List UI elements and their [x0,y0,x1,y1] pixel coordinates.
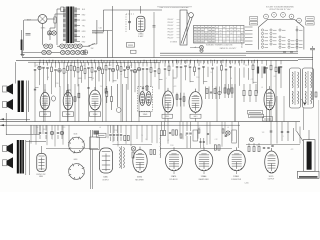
svg-text:GRN: GRN [82,20,87,22]
svg-text:CONVERTER: CONVERTER [231,179,242,181]
svg-text:C1A: C1A [98,27,102,30]
svg-text:YEL: YEL [82,25,85,27]
svg-text:PULLEY: PULLEY [168,25,174,27]
svg-text:68K: 68K [130,65,133,67]
svg-text:47K: 47K [291,149,294,151]
svg-text:6AV6: 6AV6 [74,158,78,161]
svg-text:RECTIFIER: RECTIFIER [135,179,144,181]
svg-text:220K: 220K [55,83,59,85]
svg-text:WITH VTVM LINE 117 V AC: WITH VTVM LINE 117 V AC [269,8,291,11]
svg-text:BLK: BLK [82,36,86,38]
svg-text:RED: RED [82,14,86,16]
svg-text:OUTPUT: OUTPUT [268,178,275,180]
svg-text:PULLEY: PULLEY [168,28,174,30]
svg-text:12K: 12K [36,127,39,129]
svg-text:68K: 68K [252,138,255,140]
svg-text:PULLEY: PULLEY [168,34,174,36]
svg-text:PULLEY: PULLEY [168,37,174,39]
svg-text:12K: 12K [262,132,265,134]
svg-text:BLK: BLK [82,9,86,11]
svg-text:OUTPUT: OUTPUT [102,179,109,181]
svg-text:10: 10 [65,72,67,74]
svg-text:12K: 12K [149,69,152,71]
svg-text:.02: .02 [221,65,223,67]
svg-text:150: 150 [198,127,201,129]
svg-text:.1: .1 [282,136,283,138]
svg-text:PULLEY: PULLEY [168,31,174,33]
svg-text:GRN: GRN [82,31,87,33]
svg-text:PULLEY: PULLEY [168,22,174,24]
svg-text:12BA6: 12BA6 [138,33,143,36]
svg-text:10: 10 [210,72,212,74]
svg-text:L2: L2 [95,33,97,35]
svg-text:12BE6: 12BE6 [233,176,239,178]
svg-text:4.7K: 4.7K [108,65,111,67]
svg-text:.01: .01 [261,87,263,89]
svg-text:50B5: 50B5 [103,177,107,179]
svg-text:IF AMPLIFIER: IF AMPLIFIER [198,178,209,181]
svg-text:50C5: 50C5 [269,176,274,178]
svg-text:.01: .01 [227,127,229,129]
svg-text:10: 10 [145,139,147,141]
svg-text:RATED 35 L 4% KWTY: RATED 35 L 4% KWTY [220,47,237,50]
svg-text:C-605: C-605 [244,183,248,185]
svg-text:150: 150 [245,65,248,67]
svg-text:1M: 1M [185,135,188,137]
svg-text:_: _ [190,46,192,47]
svg-text:47K: 47K [174,86,177,88]
svg-text:.02: .02 [83,65,85,67]
svg-text:1ST AUDIO: 1ST AUDIO [169,178,178,181]
svg-text:.05: .05 [47,77,49,79]
svg-text:TUBE AND TRIMMER LOCATIONS: TUBE AND TRIMMER LOCATIONS [206,43,234,46]
svg-text:4.7K: 4.7K [214,139,217,141]
svg-text:6BJ6: 6BJ6 [74,134,78,136]
svg-text:220K: 220K [170,145,174,147]
svg-text:6BE6: 6BE6 [39,176,43,178]
svg-text:2.0: 2.0 [43,129,45,131]
svg-text:12BA6: 12BA6 [201,175,207,178]
svg-text:PULLEY: PULLEY [168,19,174,21]
svg-text:35W4: 35W4 [137,177,142,179]
svg-text:MODEL 5T10 CH: MODEL 5T10 CH [242,33,244,48]
svg-text:1M: 1M [230,78,233,80]
svg-text:150: 150 [100,86,103,88]
svg-text:12AV6: 12AV6 [143,113,148,116]
svg-text:47K: 47K [36,65,39,67]
svg-text:.05: .05 [99,127,101,129]
svg-text:PHONO OSC: PHONO OSC [36,174,46,176]
svg-text:6BE6: 6BE6 [165,116,169,118]
svg-text:SW: SW [91,48,94,50]
svg-text:.1: .1 [51,139,52,141]
svg-text:220K: 220K [114,130,118,132]
svg-text:10: 10 [141,135,143,137]
svg-text:6AL5: 6AL5 [194,115,198,118]
svg-text:.05: .05 [188,65,190,67]
svg-text:4.7K: 4.7K [250,79,253,81]
svg-text:12AT6: 12AT6 [171,175,176,178]
svg-text:3 TURNS: 3 TURNS [170,42,177,44]
svg-text:68K: 68K [274,76,277,78]
svg-text:RED: RED [82,41,86,43]
svg-text:6BE6: 6BE6 [41,28,45,30]
svg-text:47K: 47K [63,127,66,129]
svg-text:.1: .1 [165,78,166,80]
svg-text:.01: .01 [120,74,122,76]
svg-text:.02: .02 [167,140,169,142]
svg-text:220K: 220K [196,77,200,79]
svg-text:1M: 1M [92,78,95,80]
svg-text:.05: .05 [256,145,258,147]
